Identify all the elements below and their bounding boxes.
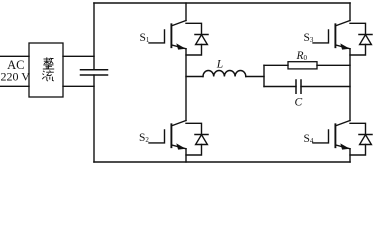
wire bottom rail (94, 161, 350, 163)
svg-text:S3: S3 (304, 32, 314, 44)
transistor Q S3 (IGBT) (313, 3, 350, 49)
wire rectifier output top (63, 55, 94, 57)
label 流 (rectifier char bottom, hand-drawn) (42, 70, 54, 81)
diode D4 (antiparallel S4) (350, 123, 372, 155)
transistor Q S1 (IGBT) (149, 3, 186, 49)
svg-text:S2: S2 (139, 132, 149, 144)
capacitor (DC link) plates (81, 70, 108, 75)
wire C branch left (264, 86, 296, 88)
svg-text:R0: R0 (296, 50, 308, 62)
svg-text:220 V: 220 V (0, 70, 30, 84)
wire mid-left node to inductor (186, 76, 203, 78)
inductor L (203, 70, 246, 76)
svg-text:S4: S4 (304, 133, 314, 145)
wire rectifier output bottom (63, 85, 94, 87)
wire AC input top (0, 55, 29, 57)
wire inductor to RC (246, 76, 264, 78)
transistor Q S4 (IGBT) (313, 49, 350, 162)
wire AC input bottom (0, 85, 29, 87)
wire left DC rail lower (93, 75, 95, 162)
label 整 (rectifier char top, hand-drawn) (43, 57, 54, 69)
svg-text:S1: S1 (140, 32, 150, 44)
transistor Q S2 (IGBT) (149, 49, 186, 162)
rectifier box (29, 43, 63, 97)
wire C branch right (301, 86, 350, 88)
svg-text:C: C (295, 97, 303, 109)
wire R0 branch left (264, 64, 288, 66)
svg-text:L: L (216, 59, 223, 71)
resistor R0 (288, 62, 317, 69)
wire top rail (94, 2, 350, 4)
wire RC left vertical (263, 65, 265, 86)
capacitor C plates (296, 80, 301, 93)
diode D2 (antiparallel S2) (186, 123, 208, 155)
wire R0 branch right (317, 64, 350, 66)
diode D3 (antiparallel S3) (350, 23, 372, 55)
wire left DC rail upper (93, 3, 95, 70)
diode D1 (antiparallel S1) (186, 23, 208, 55)
